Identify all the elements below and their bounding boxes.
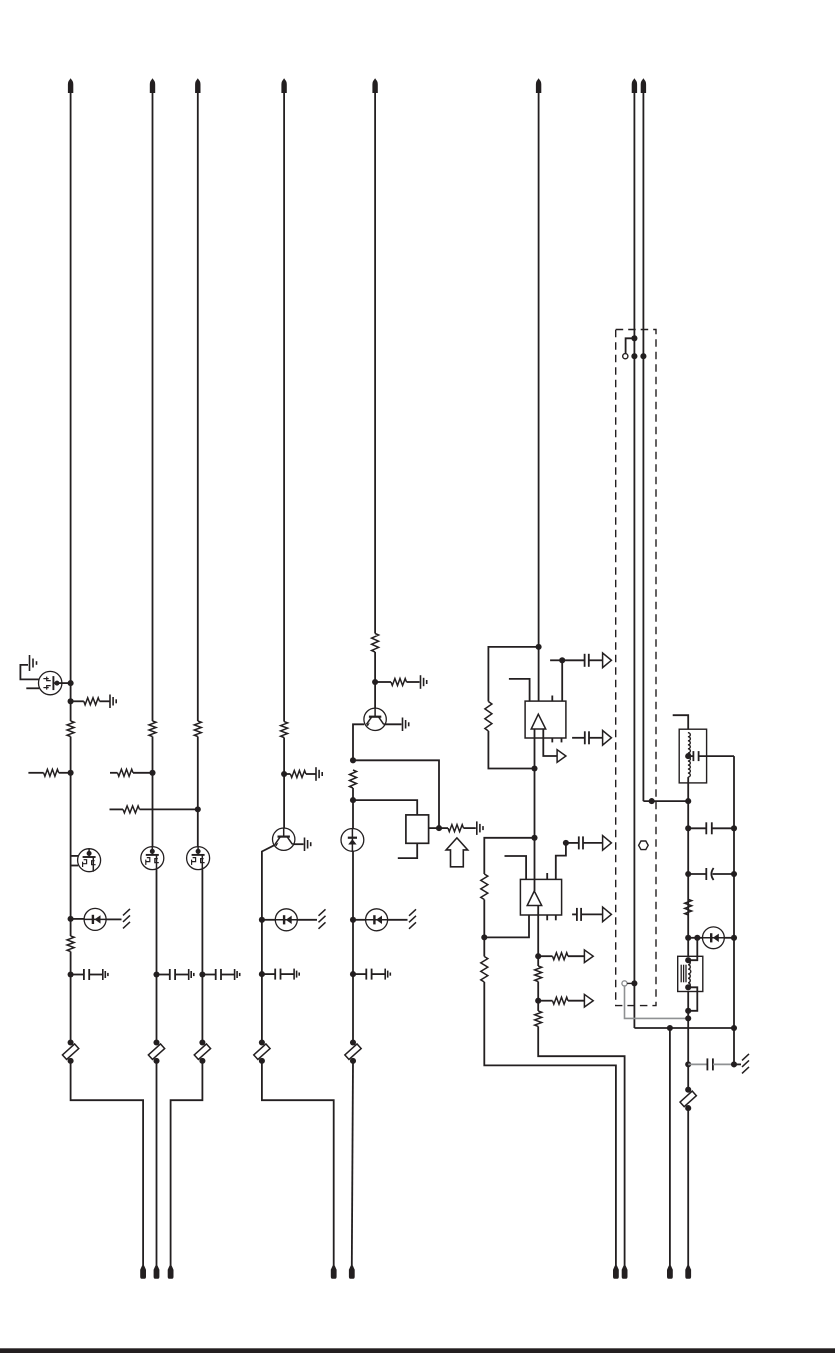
junction [731, 935, 737, 941]
wire (T2 secondary top) [688, 938, 697, 960]
signal-flow arrow (block pointer) [446, 838, 468, 867]
junction [535, 953, 541, 959]
transistor Q3 (dual-gate FET) [141, 847, 164, 870]
wire [106, 918, 121, 920]
wire [538, 93, 540, 716]
ground [234, 969, 236, 980]
junction [199, 971, 205, 977]
resistor [535, 1011, 542, 1027]
wire [374, 652, 376, 708]
T2 winding [688, 960, 691, 987]
junction [685, 935, 691, 941]
resistor [535, 966, 542, 982]
chassis ground [319, 909, 326, 916]
resistor [67, 936, 74, 952]
wire [633, 93, 635, 1028]
wire (bend to connector) [71, 1061, 144, 1266]
junction [281, 771, 287, 777]
wire (bend to connector) [171, 1061, 203, 1266]
junction [68, 916, 74, 922]
test point (open) [623, 354, 628, 359]
capacitor (to ground) [202, 974, 215, 976]
connector pin J1 (top, line A) [68, 78, 73, 93]
junction [685, 753, 691, 759]
ground [293, 969, 295, 980]
capacitor + output arrow (port 2) [572, 737, 585, 739]
wire (to filter output node) [353, 760, 439, 828]
ground [384, 969, 386, 980]
ferrite bead / jumper [685, 1087, 691, 1093]
junction [685, 1015, 691, 1021]
pin (U2 top 3) [556, 843, 566, 880]
resistor (to ground) [71, 700, 84, 702]
connector pin (bottom) [667, 1266, 673, 1279]
resistor [372, 634, 379, 653]
wire [724, 937, 734, 939]
wire (gate stubs to Q2) [71, 855, 79, 857]
wire [70, 93, 72, 721]
capacitor (to ground) [353, 973, 366, 975]
junction [436, 825, 442, 831]
wire [429, 827, 439, 829]
wire [669, 1028, 671, 1266]
pin (U1 bottom stub 1) [551, 738, 553, 742]
wire [733, 756, 735, 1064]
junction [536, 644, 542, 650]
connector pin (bottom) [154, 1266, 160, 1279]
wire [534, 838, 536, 891]
resistor [194, 721, 201, 737]
wire (bend to connector) [538, 1026, 624, 1265]
capacitor (to ground) [71, 974, 84, 976]
wire (collector to ground) [384, 723, 402, 725]
wire [156, 869, 158, 974]
capacitor (to ground) [262, 973, 275, 975]
transistor Q4 (dual-gate FET) [187, 847, 210, 870]
junction [149, 770, 155, 776]
T2 core [680, 965, 682, 983]
junction [685, 798, 691, 804]
junction [667, 1025, 673, 1031]
junction [631, 335, 637, 341]
wire [483, 937, 485, 956]
junction [259, 917, 265, 923]
diode D5 [703, 927, 725, 949]
transistor Q5 (BJT) [273, 828, 295, 850]
ground [476, 821, 478, 835]
diode D4 [366, 909, 388, 931]
junction [631, 980, 637, 986]
wire [374, 93, 376, 634]
ground [315, 767, 317, 781]
ferrite bead / jumper [350, 1039, 356, 1045]
wire (emitter down line) [262, 845, 275, 920]
resistor (AGC feed, line A) [28, 772, 43, 774]
junction [731, 1025, 737, 1031]
wire (grey jumper) [625, 986, 689, 1018]
chassis ground [409, 909, 416, 916]
pin (U1 top 3) [561, 660, 563, 701]
wire [627, 982, 634, 984]
transistor Q1 (dual-gate FET) [39, 671, 62, 694]
junction [350, 971, 356, 977]
transistor Q2 (dual-gate FET) [78, 849, 101, 872]
resistor [685, 899, 692, 915]
wire [537, 956, 539, 966]
wire [483, 900, 485, 938]
resistor (feedback 2) [481, 874, 488, 900]
junction [649, 798, 655, 804]
resistor [67, 721, 74, 737]
resistor [281, 722, 288, 738]
junction [685, 825, 691, 831]
resistor [481, 957, 488, 983]
connector pin (bottom) [622, 1266, 628, 1279]
wire (G2 to IF strip) [643, 800, 688, 802]
transistor Q6 (BJT) [364, 708, 386, 730]
junction [531, 765, 537, 771]
resistor [149, 721, 156, 737]
footer rule (black bar) [0, 1348, 835, 1353]
wire [201, 975, 203, 1043]
junction [531, 835, 537, 841]
wire [688, 937, 702, 939]
wire (feedback loop 1) [488, 647, 538, 702]
pin (U1 top 2) [551, 696, 553, 702]
connector pin (top, line G1) [632, 78, 637, 93]
junction [153, 971, 159, 977]
capacitor + output arrow (port 3) [566, 842, 579, 844]
wire [197, 737, 199, 848]
wire [201, 869, 203, 974]
junction [68, 698, 74, 704]
wire [262, 919, 275, 921]
junction [685, 1061, 691, 1067]
wire (bus to IF) [634, 1027, 734, 1029]
junction [640, 353, 646, 359]
junction [481, 934, 487, 940]
ground [102, 969, 104, 980]
junction [68, 971, 74, 977]
wire (emitter down line) [353, 724, 364, 760]
wire [352, 788, 354, 829]
wire [70, 952, 72, 1043]
op-amp U2 triangle [527, 891, 542, 906]
IF transformer T2 (can) [678, 956, 703, 991]
resistor (to ground) [439, 827, 448, 829]
connector pin (top, line G2) [641, 78, 646, 93]
capacitor + output arrow (port 4) [572, 913, 577, 915]
wire [484, 915, 529, 937]
shield box (dashed) [616, 330, 656, 1006]
junction [350, 797, 356, 803]
ground [420, 675, 422, 689]
wire (tap) [626, 338, 635, 353]
junction [685, 984, 691, 990]
capacitor (trimmer) [688, 873, 706, 875]
wire [642, 93, 644, 801]
wire [534, 729, 536, 838]
node (hex marker) [639, 841, 649, 850]
wire [687, 801, 689, 1090]
wire [687, 777, 689, 801]
wire [734, 1063, 741, 1065]
pin (U1 top 1) [509, 679, 530, 701]
chassis ground [123, 909, 130, 916]
wire [71, 918, 85, 920]
junction [68, 770, 74, 776]
junction [694, 935, 700, 941]
wire [537, 906, 539, 957]
capacitor (to chassis) [688, 1063, 707, 1065]
wire [550, 659, 562, 661]
resistor (AGC feed, line B) [110, 772, 118, 774]
op-amp U1 triangle [531, 714, 546, 729]
wire [352, 851, 354, 920]
junction [685, 871, 691, 877]
wire [353, 919, 366, 921]
wire [537, 982, 539, 1001]
test point (open) [622, 981, 627, 986]
wire [261, 920, 263, 974]
resistor (to ground) [284, 773, 290, 775]
wire [388, 919, 408, 921]
wire (gate 2 of Q1) [26, 687, 39, 689]
connector pin (top, line F) [536, 78, 541, 93]
wire [352, 1061, 353, 1266]
junction [685, 1008, 691, 1014]
wire [687, 1108, 689, 1266]
connector pin (top, line B) [150, 78, 155, 93]
capacitor (to ground) [157, 974, 170, 976]
junction [195, 806, 201, 812]
connector pin (bottom) [140, 1266, 146, 1279]
wire [488, 731, 534, 769]
wire (collector to ground) [292, 843, 303, 845]
pin (U2 top 2) [546, 873, 548, 879]
T1 winding [688, 733, 690, 777]
junction [350, 917, 356, 923]
junction [631, 353, 637, 359]
ground [188, 969, 190, 980]
connector pin (bottom) [168, 1266, 174, 1279]
op-amp U2 (IF amp block) [520, 879, 561, 915]
wire (feedback loop 2) [484, 838, 534, 874]
ground (gate of Q1) [20, 665, 38, 680]
ground [109, 695, 111, 709]
wire (open stub) [673, 715, 689, 733]
junction [563, 840, 569, 846]
connector pin (bottom) [613, 1266, 619, 1279]
ferrite bead / jumper [68, 1039, 74, 1045]
wire [297, 919, 317, 921]
pin (U2 bottom stub 2) [555, 915, 557, 920]
wire (feedback line to connector) [484, 982, 616, 1266]
junction [731, 871, 737, 877]
connector pin (bottom) [349, 1266, 355, 1279]
pin (U2 bottom stub 1) [546, 915, 548, 920]
ferrite bead / jumper [153, 1039, 159, 1045]
ground [304, 838, 306, 852]
resistor + output arrow (port 6) [538, 1000, 552, 1002]
diode D3 (varactor) [341, 829, 364, 852]
junction [731, 825, 737, 831]
resistor (feedback 1) [485, 702, 492, 732]
connector pin (top, line C) [195, 78, 200, 93]
capacitor [688, 827, 706, 829]
diode D1 [84, 908, 106, 930]
wire [152, 93, 154, 721]
connector pin (bottom) [685, 1266, 691, 1279]
wire [537, 1001, 539, 1011]
capacitor + output arrow (port 1) [562, 659, 584, 661]
wire [261, 974, 263, 1042]
wire [283, 738, 285, 829]
wire [156, 1061, 158, 1266]
pin (U1 bottom stub 2) [561, 738, 563, 742]
wire [156, 975, 158, 1043]
capacitor (T1 resonating) [688, 755, 693, 757]
ground [402, 718, 404, 732]
connector pin (top, line E) [372, 78, 377, 93]
resistor (to ground) [375, 681, 391, 683]
junction [535, 998, 541, 1004]
wire [57, 682, 71, 684]
junction [68, 680, 74, 686]
crystal filter FL1 [406, 815, 429, 843]
wire (filter stub) [398, 843, 417, 858]
wire (T2 secondary bottom) [688, 987, 697, 1011]
pin (U2 top 1) [505, 856, 527, 879]
op-amp U1 (IF amp block) [525, 701, 566, 738]
connector pin (top, line D) [281, 78, 286, 93]
wire (to filter input) [353, 800, 417, 815]
wire [70, 737, 72, 937]
connector pin (bottom) [331, 1266, 337, 1279]
junction [259, 971, 265, 977]
ferrite bead / jumper [199, 1039, 205, 1045]
wire [152, 737, 154, 848]
junction [372, 679, 378, 685]
wire [283, 93, 285, 722]
ferrite bead / jumper [259, 1039, 265, 1045]
IF transformer T1 (can) [679, 729, 706, 783]
junction [731, 1061, 737, 1067]
chassis ground [742, 1054, 749, 1061]
junction [559, 657, 565, 663]
resistor [350, 770, 357, 788]
resistor (AGC feed, line C) [110, 808, 124, 810]
resistor + output arrow (port 5) [538, 955, 552, 957]
wire [197, 93, 199, 721]
output arrow (small) [557, 750, 566, 763]
wire (bend to connector) [262, 1061, 334, 1266]
junction [350, 757, 356, 763]
diode D2 [275, 909, 297, 931]
wire [352, 974, 354, 1042]
junction [685, 957, 691, 963]
wire (U1 out to arrow) [543, 729, 557, 756]
wire [352, 920, 354, 974]
